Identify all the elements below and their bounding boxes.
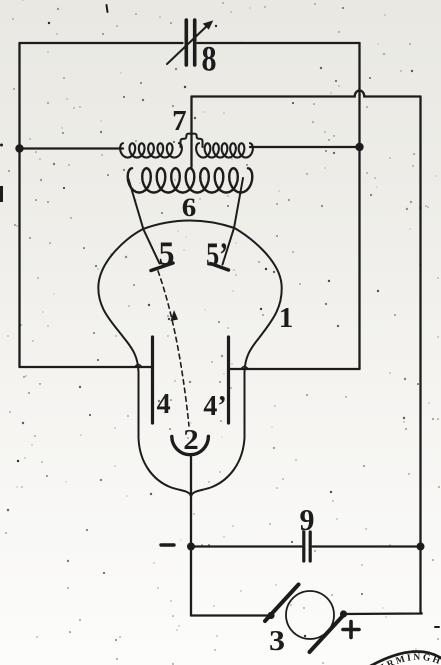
battery terminal dot left: [267, 612, 274, 619]
capacitor 9 plates: [304, 532, 310, 561]
lead from coil 6 right end to electrode 5': [223, 178, 244, 265]
wire bottom left segment to capacitor 9: [191, 545, 302, 547]
wire plate 4' lead right: [230, 368, 360, 370]
svg-text:8: 8: [202, 39, 217, 79]
scan artifact left edge blob: [0, 186, 3, 202]
wire battery branch horizontal left: [191, 614, 271, 616]
wire branch horizontal with hop over vertical: [192, 91, 421, 97]
coil 6: [128, 168, 253, 192]
wire right outer vertical: [419, 97, 421, 614]
cathode 2 cup: [172, 436, 209, 454]
battery terminal dot right: [340, 610, 347, 617]
battery 3 circle: [286, 591, 334, 639]
wire left vertical to coil 7 left end: [20, 147, 124, 149]
wire plate 4 lead left: [20, 366, 152, 368]
svg-text:7: 7: [172, 105, 187, 137]
scan artifact right dash: [435, 626, 439, 628]
coil 7 right half: [196, 143, 253, 157]
variable capacitor 8 arrow: [167, 21, 213, 64]
tube envelope 1: [98, 220, 281, 496]
junction dot left coil 7: [15, 144, 23, 152]
svg-text:6: 6: [182, 193, 197, 222]
svg-text:9: 9: [300, 502, 315, 537]
coil 7 center tap: [181, 134, 203, 147]
svg-text:2: 2: [183, 425, 199, 456]
plate 4: [151, 337, 154, 423]
scan artifact left dot: [0, 144, 3, 147]
electrode 5 bar: [151, 263, 173, 271]
stamp arc BIRMINGHAM: [360, 652, 441, 665]
svg-text:4: 4: [157, 389, 171, 420]
svg-text:5’: 5’: [206, 237, 228, 274]
electrode 5' bar: [211, 264, 229, 271]
envelope seal bump left: [135, 365, 142, 368]
wire coil 7 right end to right vertical: [250, 146, 360, 148]
plate 4': [227, 337, 230, 423]
svg-text:1: 1: [279, 302, 294, 334]
svg-text:BIRMINGHAM: BIRMINGHAM: [0, 0, 441, 665]
svg-text:5: 5: [159, 236, 175, 273]
wire left vertical: [18, 43, 20, 367]
battery 3 right brush: [310, 614, 346, 653]
svg-text:4’: 4’: [203, 391, 226, 422]
coil 7 left half: [120, 143, 182, 157]
wire bottom right segment from capacitor 9: [313, 545, 421, 547]
wire cathode lead: [190, 455, 192, 547]
junction dot right coil 7: [355, 143, 363, 151]
svg-text:3: 3: [269, 626, 285, 657]
wire battery branch horizontal right: [344, 613, 422, 614]
wire top left segment to capacitor 8: [20, 42, 183, 44]
junction dot cathode bottom: [187, 543, 195, 551]
minus sign: [161, 543, 174, 546]
variable capacitor 8 plates: [186, 20, 194, 65]
wire vertical from branch corner to coil tap: [190, 97, 192, 168]
scan artifact top mark: [107, 5, 108, 12]
beam arrowhead: [171, 310, 179, 321]
wire battery branch vertical: [190, 547, 192, 616]
lead from coil 6 left end to electrode 5: [129, 179, 160, 264]
battery 3 left brush: [265, 585, 299, 622]
envelope seal bump right: [241, 367, 248, 370]
wire right mid vertical: [358, 43, 360, 369]
plus sign: [343, 622, 359, 638]
wire top right segment from capacitor 8: [198, 42, 360, 44]
junction dot bottom right: [417, 543, 425, 551]
beam dashed line: [158, 271, 189, 426]
